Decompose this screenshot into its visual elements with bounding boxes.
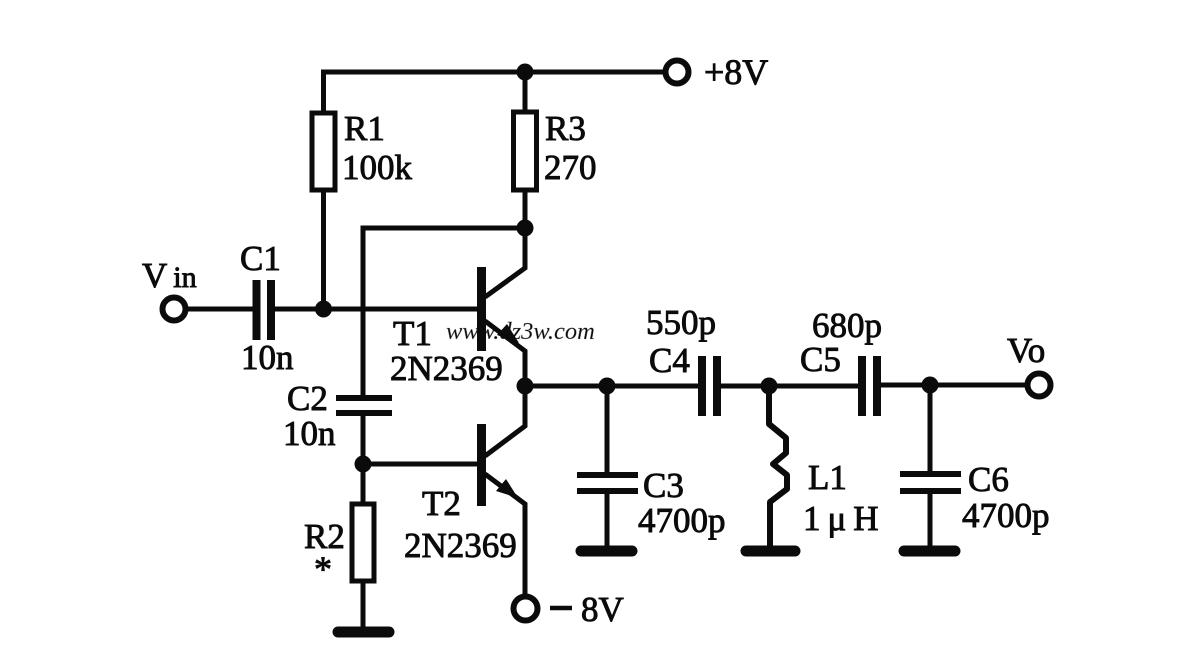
junction C2 / R2 / T2 base xyxy=(355,456,372,473)
node Vo terminal xyxy=(1007,331,1051,397)
junction R1 / input xyxy=(315,301,332,318)
svg-text:C3: C3 xyxy=(643,466,684,505)
svg-text:T2: T2 xyxy=(422,484,461,523)
wire top supply rail xyxy=(321,70,665,75)
svg-text:L1: L1 xyxy=(808,458,847,497)
junction T1 emitter / T2 collector xyxy=(517,378,534,395)
junction R3 bottom / T1 collector xyxy=(517,220,534,237)
wire C4 to C5 xyxy=(720,384,858,389)
svg-text:10n: 10n xyxy=(241,338,294,377)
-8V terminal xyxy=(514,590,624,629)
wire C5 to Vo xyxy=(880,383,1027,388)
capacitor C1 xyxy=(240,239,294,377)
svg-text:+8V: +8V xyxy=(704,52,768,92)
capacitor C5 xyxy=(800,306,882,416)
capacitor C4 xyxy=(646,303,717,416)
svg-text:550p: 550p xyxy=(646,303,716,342)
svg-text:100k: 100k xyxy=(342,148,413,187)
svg-text:C2: C2 xyxy=(287,379,328,418)
svg-text:C4: C4 xyxy=(649,341,690,380)
capacitor C6 xyxy=(900,385,1050,546)
svg-text:2N2369: 2N2369 xyxy=(390,349,503,388)
inductor L1 xyxy=(769,386,879,546)
junction C3 xyxy=(599,378,616,395)
svg-text:Vo: Vo xyxy=(1007,331,1045,370)
ground below L1 xyxy=(746,546,795,557)
junction L1 xyxy=(761,378,778,395)
ground below R2 xyxy=(338,627,389,638)
resistor R3 xyxy=(514,72,597,228)
junction top rail / R3 xyxy=(517,64,534,81)
ground below C6 xyxy=(904,546,955,557)
wire feedback: R3 bottom to C2 top xyxy=(363,228,525,396)
resistor R2 xyxy=(304,464,374,628)
node V in terminal xyxy=(142,256,197,321)
svg-text:2N2369: 2N2369 xyxy=(404,526,517,565)
svg-text:4700p: 4700p xyxy=(962,496,1050,535)
svg-text:10n: 10n xyxy=(283,414,336,453)
svg-text:T1: T1 xyxy=(393,314,432,353)
wire emitter node to C4 xyxy=(525,384,699,389)
resistor R1 xyxy=(312,72,413,309)
svg-text:C1: C1 xyxy=(240,239,281,278)
svg-text:www.dz3w.com: www.dz3w.com xyxy=(446,318,595,345)
wire T2 base xyxy=(363,462,478,467)
svg-text:C6: C6 xyxy=(968,460,1009,499)
svg-text:R1: R1 xyxy=(344,109,385,148)
svg-text:R3: R3 xyxy=(545,109,586,148)
capacitor C2 xyxy=(283,379,392,464)
svg-text:8V: 8V xyxy=(581,590,624,629)
capacitor C3 xyxy=(577,386,726,546)
+8V terminal xyxy=(666,52,769,92)
wire input to C1 xyxy=(187,307,254,312)
svg-text:C5: C5 xyxy=(800,340,841,379)
svg-text:*: * xyxy=(314,549,332,589)
svg-text:1 μ H: 1 μ H xyxy=(803,499,879,538)
junction C6 xyxy=(922,377,939,394)
ground below C3 xyxy=(581,546,632,557)
svg-text:270: 270 xyxy=(544,148,597,187)
svg-text:4700p: 4700p xyxy=(638,501,726,540)
transistor T1 xyxy=(390,230,525,388)
transistor T2 xyxy=(404,388,525,597)
wire C1 to T1 base xyxy=(274,307,478,312)
